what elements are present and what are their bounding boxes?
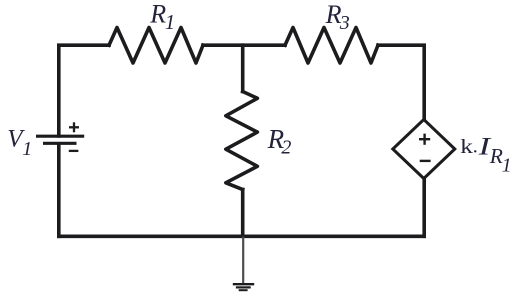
label R3: [325, 0, 350, 34]
wire R2 to bottom: [241, 190, 245, 237]
dependent source minus sign: [420, 160, 431, 162]
wire top-middle segment: [203, 43, 285, 47]
voltage source V1 battery plates: [36, 136, 84, 143]
svg-text:.: .: [473, 136, 478, 158]
svg-text:2: 2: [281, 137, 291, 159]
wire top-left segment: [59, 45, 109, 136]
battery minus sign: [69, 150, 79, 152]
battery plus sign: [69, 122, 79, 132]
svg-text:1: 1: [22, 138, 32, 160]
wire node to R2: [241, 45, 245, 91]
svg-text:R: R: [149, 0, 166, 29]
wire battery bottom to bottom-left corner: [57, 145, 61, 237]
svg-text:k: k: [460, 136, 473, 158]
svg-text:1: 1: [502, 155, 512, 177]
wire top-right segment: [378, 45, 424, 119]
resistor R2: [226, 92, 258, 190]
wire bottom: [59, 235, 424, 239]
resistor R3: [285, 28, 378, 64]
label R2: [267, 124, 292, 159]
dependent source plus sign: [419, 134, 430, 145]
svg-text:3: 3: [339, 12, 350, 34]
wire dependent source bottom: [422, 179, 426, 237]
dependent source U1 diamond: [393, 120, 455, 179]
ground stem wire: [242, 237, 244, 284]
ground: [233, 284, 254, 290]
svg-text:1: 1: [165, 10, 176, 34]
resistor R1: [109, 28, 203, 64]
label R1: [149, 0, 175, 34]
label k.I R1: [460, 132, 511, 177]
label V1: [7, 126, 32, 160]
